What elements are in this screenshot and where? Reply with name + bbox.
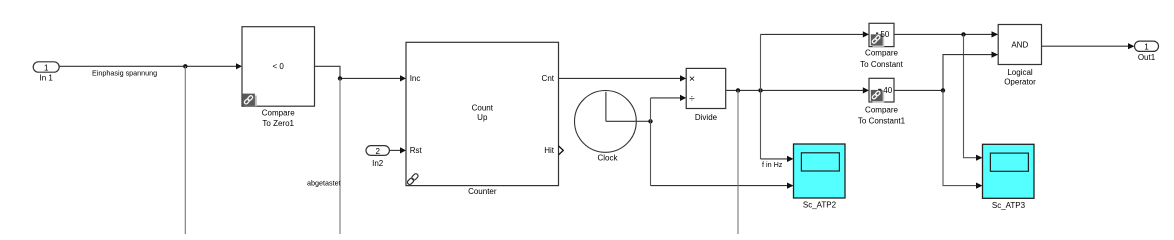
svg-text:abgetastet: abgetastet (307, 179, 341, 188)
svg-text:Einphasig spannung: Einphasig spannung (92, 68, 157, 77)
wire junction down to bottom edge (184, 66, 186, 234)
svg-text:In 1: In 1 (40, 74, 54, 83)
block Counter (406, 42, 559, 196)
outport Out1 (1135, 41, 1159, 62)
wire junction down to Sc_ATP3 upper input (964, 34, 983, 160)
wire Compare To Constant1 to AND in2 (894, 52, 998, 91)
wire to Divide divisor (651, 95, 687, 101)
junction node x943 (941, 88, 945, 92)
svg-text:Divide: Divide (695, 113, 718, 122)
svg-text:AND: AND (1011, 40, 1028, 49)
svg-text:To Zero1: To Zero1 (262, 119, 294, 128)
library link badge of Compare To Constant1 (871, 86, 893, 103)
svg-text:40: 40 (883, 86, 892, 95)
junction node x738 (736, 88, 740, 92)
svg-text:Hit: Hit (544, 146, 555, 155)
svg-text:Compare: Compare (865, 49, 898, 58)
wire to Compare To Constant upper (761, 31, 870, 37)
svg-text:Count: Count (472, 103, 494, 112)
inport In1 (33, 62, 59, 83)
wire Counter Cnt to Divide x (559, 75, 687, 81)
block Divide (686, 68, 726, 122)
junction node x963 (961, 32, 965, 36)
junction node clock (648, 119, 652, 123)
wire In2 to Counter Rst (389, 147, 406, 153)
svg-text:In2: In2 (372, 159, 384, 168)
junction node x760 (758, 88, 762, 92)
svg-text:Out1: Out1 (1138, 53, 1156, 62)
wire junction down to bottom edge (737, 90, 739, 234)
junction node at x340 (338, 76, 342, 80)
block Compare To Constant1 (858, 78, 906, 125)
svg-text:Cnt: Cnt (542, 74, 555, 83)
wire Compare To Constant to AND in1 (894, 31, 998, 37)
svg-text:To Constant1: To Constant1 (858, 116, 906, 125)
scope Sc_ATP2 (794, 144, 846, 210)
svg-text:Compare: Compare (865, 105, 898, 114)
svg-text:Logical: Logical (1007, 68, 1033, 77)
clock Clock (575, 91, 637, 163)
wire to Sc_ATP2 upper input (761, 156, 794, 162)
wire junction down to bottom edge (339, 78, 341, 234)
svg-text:Sc_ATP3: Sc_ATP3 (992, 201, 1026, 210)
block Logical Operator AND (998, 25, 1041, 87)
junction node on In1 wire (183, 64, 187, 68)
inport In2 (366, 146, 389, 168)
library link badge of Compare To Zero1 (243, 94, 257, 107)
svg-text:1: 1 (44, 63, 49, 72)
svg-text:Counter: Counter (468, 187, 497, 196)
svg-text:To Constant: To Constant (860, 60, 903, 69)
link icon of Counter (407, 173, 419, 185)
unconnected output marker Hit (559, 146, 564, 155)
svg-text:Sc_ATP2: Sc_ATP2 (803, 201, 837, 210)
svg-text:50: 50 (880, 30, 889, 39)
svg-text:Clock: Clock (597, 153, 618, 162)
wire AND to Out1 (1042, 43, 1135, 49)
svg-text:2: 2 (375, 147, 380, 156)
wire In1 to Compare To Zero1 (59, 63, 242, 69)
svg-text:1: 1 (1144, 43, 1149, 52)
block Compare To Constant (860, 23, 903, 69)
svg-text:Operator: Operator (1004, 77, 1036, 86)
svg-text:Rst: Rst (410, 146, 423, 155)
svg-text:< 0: < 0 (273, 62, 285, 71)
svg-text:Compare: Compare (262, 108, 295, 117)
svg-text:Up: Up (477, 113, 488, 122)
svg-text:÷: ÷ (689, 92, 695, 104)
wire Compare To Zero1 to Counter Inc (315, 66, 407, 81)
wire junction down to Sc_ATP3 lower input (943, 90, 983, 188)
library link badge of Compare To Constant (871, 30, 890, 47)
scope Sc_ATP3 (983, 144, 1035, 210)
svg-text:Inc: Inc (410, 74, 421, 83)
wire riser x760 (760, 34, 762, 158)
wire to Sc_ATP2 lower input (651, 183, 794, 189)
svg-text:×: × (689, 73, 695, 85)
wire Clock out (637, 120, 651, 122)
svg-text:f in Hz: f in Hz (762, 160, 783, 169)
wire Divide out to Compare To Constant1 (726, 87, 869, 93)
block Compare To Zero1 (242, 27, 315, 128)
wire riser x650 (650, 98, 652, 186)
